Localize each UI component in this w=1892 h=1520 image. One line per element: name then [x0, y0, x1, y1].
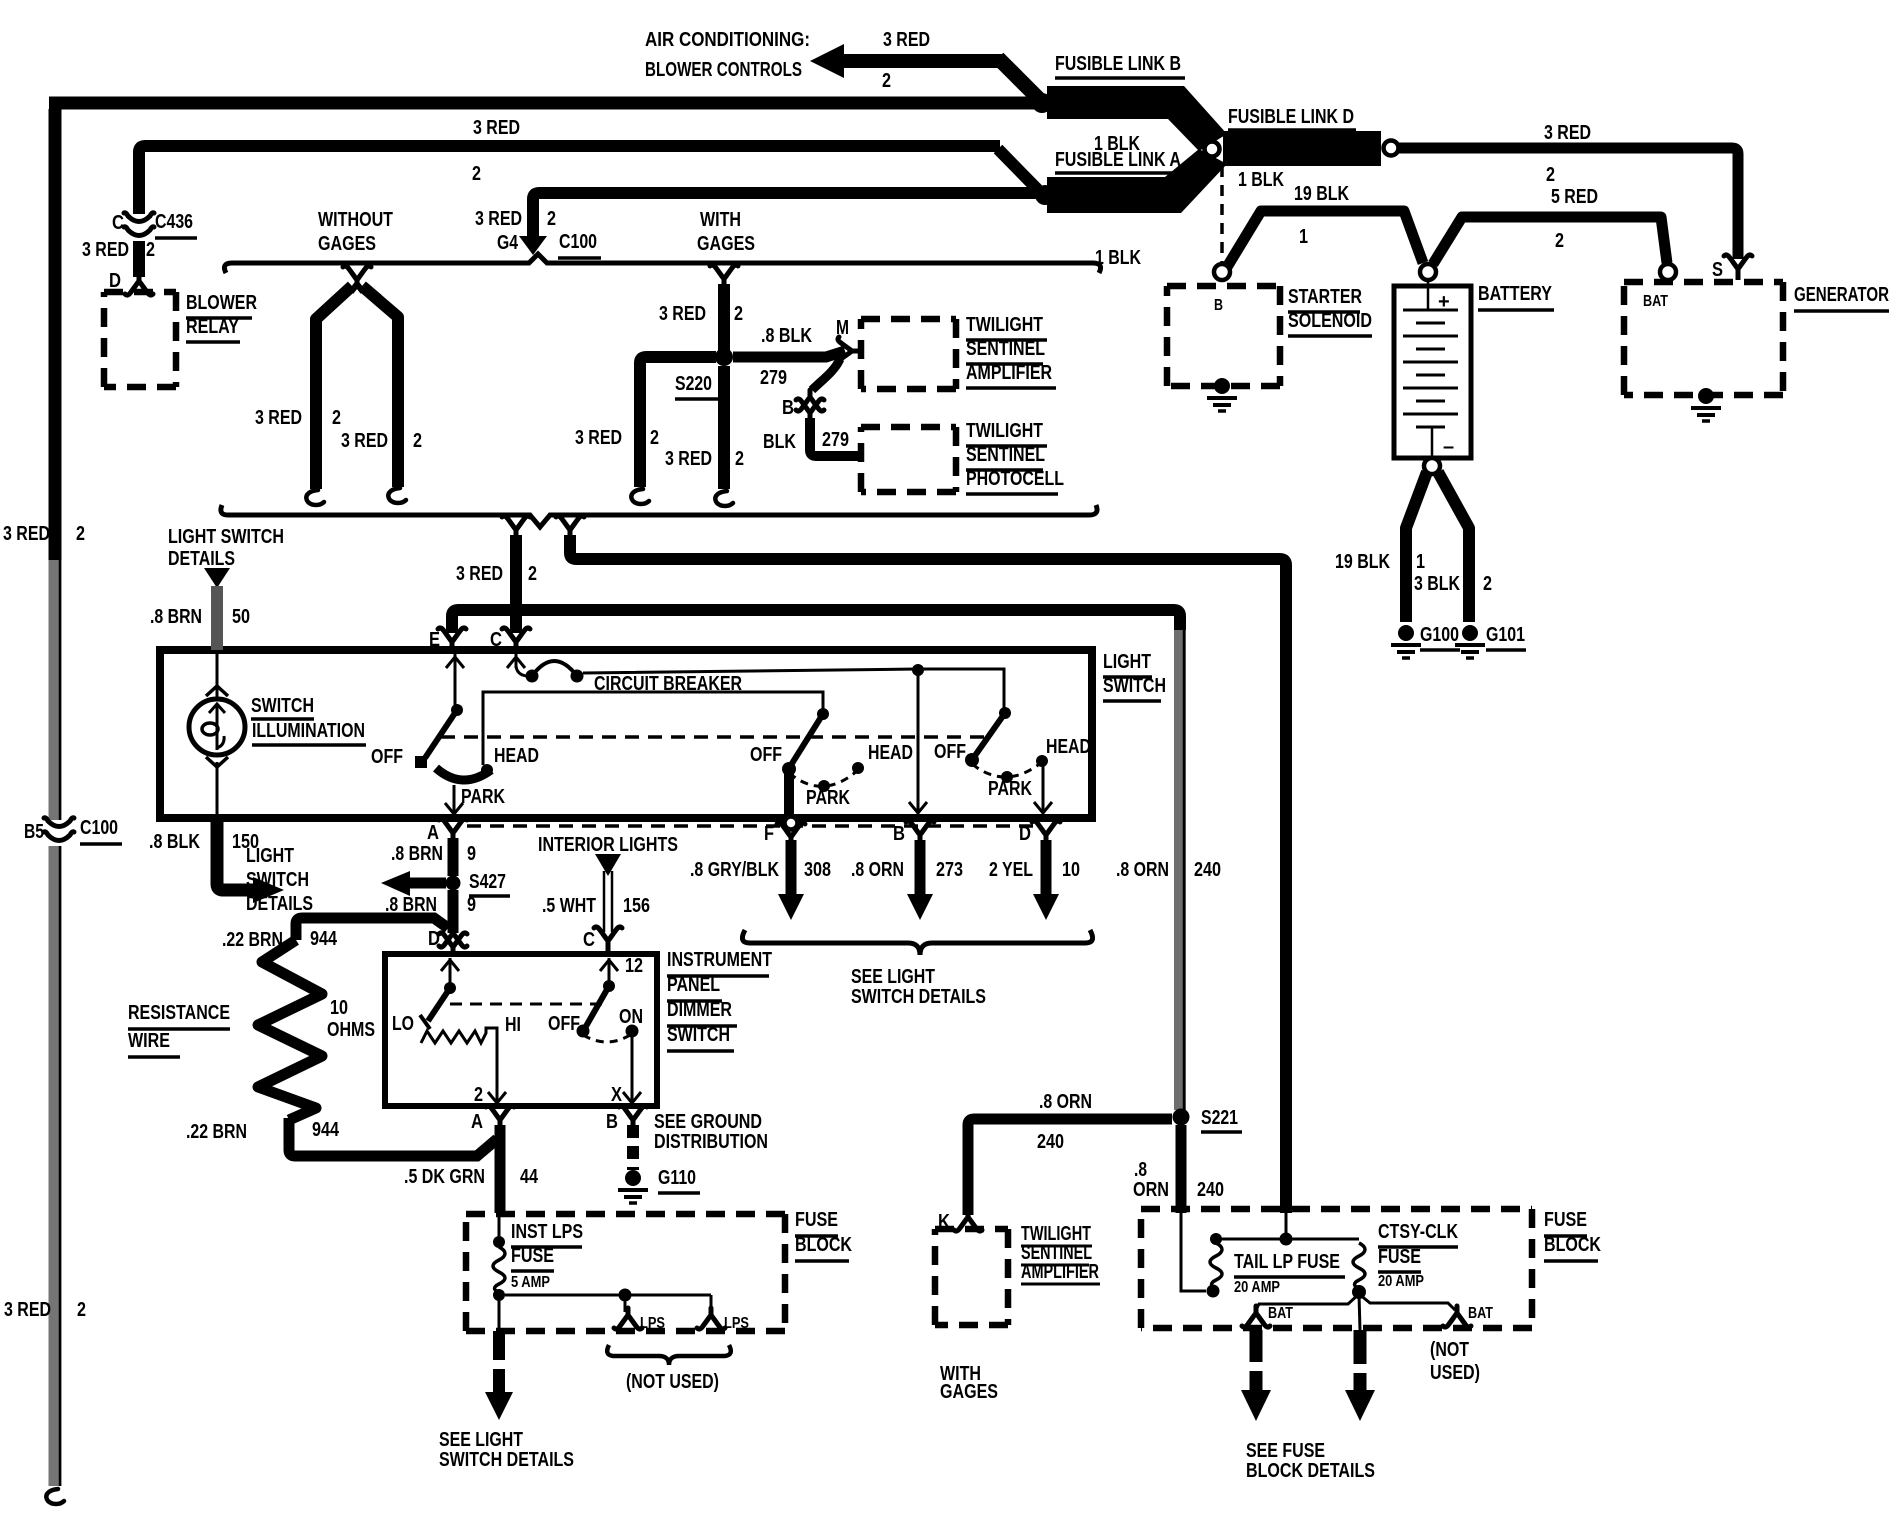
wire .8 BRN elbow to resistance wire	[296, 918, 448, 940]
wire .8 ORN 240 S221 to K amplifier	[968, 1119, 1172, 1215]
svg-text:RELAY: RELAY	[186, 316, 240, 338]
svg-text:LIGHT: LIGHT	[1103, 651, 1151, 673]
wire top bus between fuses	[1216, 1213, 1359, 1246]
label TAIL LP FUSE 20 AMP	[1234, 1251, 1345, 1296]
wire B BLK 279 photocell to amplifier	[812, 359, 840, 390]
svg-text:FUSIBLE LINK A: FUSIBLE LINK A	[1055, 149, 1181, 171]
svg-text:279: 279	[822, 429, 849, 451]
dimmer output 2 arrow	[474, 1084, 506, 1106]
label SEE LIGHT SWITCH DETAILS (bottom left)	[439, 1429, 574, 1471]
svg-text:DETAILS: DETAILS	[246, 893, 313, 915]
connector C436	[124, 213, 154, 236]
svg-text:2: 2	[1555, 230, 1564, 252]
svg-text:OFF: OFF	[548, 1013, 580, 1035]
svg-text:1: 1	[1299, 226, 1308, 248]
wire 2 YEL 10 from D	[1033, 840, 1059, 920]
switch 2 OFF contact	[782, 762, 796, 776]
svg-text:LPS: LPS	[640, 1315, 665, 1332]
ring terminal B starter solenoid	[1214, 264, 1230, 280]
svg-text:.8 BRN: .8 BRN	[150, 606, 202, 628]
svg-text:OFF: OFF	[934, 741, 966, 763]
svg-text:SWITCH DETAILS: SWITCH DETAILS	[851, 986, 986, 1008]
svg-text:HEAD: HEAD	[494, 745, 539, 767]
svg-text:240: 240	[1197, 1179, 1224, 1201]
wires from ctsy-clk fuse to BAT terminals	[1256, 1294, 1455, 1330]
connector pair at arch top	[343, 266, 371, 292]
svg-text:–: –	[1443, 436, 1454, 458]
svg-text:9: 9	[467, 843, 476, 865]
connector B5 C100 on left wire	[44, 818, 74, 846]
svg-text:G101: G101	[1486, 624, 1525, 646]
battery	[1394, 280, 1471, 459]
svg-text:3 RED: 3 RED	[665, 448, 712, 470]
wire .8 ORN 240 S221 to fuse block	[1176, 1125, 1187, 1213]
wire .8 GRY-BLK 308 from F	[778, 840, 804, 920]
wire feed to ctsy-clk fuse (long right vertical)	[570, 535, 1286, 1213]
svg-text:OHMS: OHMS	[327, 1019, 375, 1041]
label 3 RED 2	[82, 239, 155, 261]
label 3 RED 2	[341, 430, 422, 452]
label OFF ON	[548, 1006, 643, 1035]
svg-text:PHOTOCELL: PHOTOCELL	[966, 468, 1064, 490]
splice dot on 3 RED at fusible link A	[1035, 185, 1055, 205]
fuse block box (inst lps)	[466, 1214, 785, 1331]
svg-text:G110: G110	[658, 1167, 696, 1189]
svg-text:FUSE: FUSE	[511, 1245, 554, 1267]
svg-text:.8 ORN: .8 ORN	[1116, 859, 1169, 881]
dashed wire 1 BLK junction to starter solenoid	[1220, 166, 1224, 263]
svg-text:WITH: WITH	[700, 209, 741, 231]
wire 3 RED 2 down to S220	[718, 284, 730, 352]
label 19 BLK 1	[1294, 183, 1349, 248]
connector pair D dimmer input	[428, 926, 467, 954]
arrow feed from light switch details	[204, 568, 230, 588]
svg-text:.5 WHT: .5 WHT	[542, 895, 596, 917]
wire .8 BRN 50 to lamp	[211, 586, 223, 650]
svg-text:INST LPS: INST LPS	[511, 1221, 583, 1243]
light switch box	[160, 650, 1092, 818]
svg-text:LO: LO	[392, 1013, 414, 1035]
wire .8 ORN 273 from B	[907, 840, 933, 920]
svg-text:AIR CONDITIONING:: AIR CONDITIONING:	[645, 29, 810, 51]
label 3 RED 2 (left edge lower)	[4, 1299, 86, 1321]
wire 19 BLK 1 starter to battery	[1227, 211, 1423, 267]
wire 3 RED 2 from fusible link D to generator S	[1399, 148, 1738, 259]
svg-text:BLOCK: BLOCK	[1544, 1234, 1601, 1256]
wire 5 RED 2 battery to generator BAT	[1433, 217, 1667, 264]
label: AIR CONDITIONING BLOWER CONTROLS	[645, 29, 810, 81]
ground G100	[1391, 625, 1421, 658]
dimmer rheostat zigzag	[421, 1028, 497, 1102]
svg-text:BLOCK: BLOCK	[795, 1234, 852, 1256]
B output line from breaker bus	[909, 664, 927, 813]
svg-text:D: D	[1019, 823, 1031, 845]
svg-text:C100: C100	[559, 231, 597, 253]
brace not used	[607, 1345, 731, 1365]
svg-text:TWILIGHT: TWILIGHT	[966, 420, 1043, 442]
dimmer wiper arm LO	[420, 988, 450, 1029]
svg-text:FUSIBLE LINK B: FUSIBLE LINK B	[1055, 53, 1181, 75]
ring terminal generator BAT	[1660, 264, 1676, 280]
svg-text:(NOT: (NOT	[1430, 1339, 1469, 1361]
svg-text:2: 2	[1483, 573, 1492, 595]
starter solenoid box	[1167, 286, 1280, 386]
svg-text:FUSIBLE LINK D: FUSIBLE LINK D	[1228, 106, 1354, 128]
svg-text:INSTRUMENT: INSTRUMENT	[667, 949, 772, 971]
svg-text:3 RED: 3 RED	[475, 208, 522, 230]
svg-text:SWITCH: SWITCH	[1103, 675, 1166, 697]
tail lp fuse	[1207, 1233, 1223, 1298]
svg-text:OFF: OFF	[750, 744, 782, 766]
ground G101	[1455, 625, 1485, 658]
svg-text:WIRE: WIRE	[128, 1030, 170, 1052]
dashed line below light switch	[467, 824, 1038, 828]
svg-text:SENTINEL: SENTINEL	[966, 444, 1045, 466]
switch 3 dashed arc PARK HEAD	[972, 755, 1048, 783]
svg-text:279: 279	[760, 367, 787, 389]
svg-text:PANEL: PANEL	[667, 974, 720, 996]
label 10 OHMS	[327, 997, 375, 1041]
label .22 BRN 944	[222, 928, 338, 951]
upper brace (connector C100 distribution)	[224, 254, 1100, 273]
label G110	[658, 1167, 700, 1193]
ctsy-clk fuse	[1352, 1243, 1366, 1299]
label .8 BLK M 279	[760, 317, 849, 389]
svg-text:2: 2	[146, 239, 155, 261]
label LIGHT SWITCH DETAILS (note)	[246, 845, 313, 915]
label B5 C100	[24, 817, 122, 844]
label WITHOUT GAGES	[318, 209, 393, 255]
label .5 WHT 156	[542, 895, 650, 917]
splice dot on 3 RED at fusible link B	[1032, 93, 1052, 113]
wire: left vertical 3 RED 2 gray lower portion	[55, 560, 60, 1486]
svg-text:3 RED: 3 RED	[575, 427, 622, 449]
svg-text:2: 2	[474, 1084, 483, 1106]
switch 2 arm	[791, 714, 823, 765]
dimmer D input line	[441, 958, 459, 994]
label SEE FUSE BLOCK DETAILS	[1246, 1440, 1375, 1482]
svg-text:C: C	[112, 212, 124, 234]
svg-text:FUSE: FUSE	[795, 1209, 838, 1231]
svg-text:HEAD: HEAD	[1046, 736, 1091, 758]
label GENERATOR	[1794, 284, 1889, 311]
label RESISTANCE WIRE	[128, 1002, 230, 1057]
twilight sentinel amplifier box (with gages)	[935, 1229, 1008, 1325]
ground at starter solenoid	[1207, 378, 1237, 411]
svg-text:.8 ORN: .8 ORN	[1039, 1091, 1092, 1113]
label TWILIGHT SENTINEL AMPLIFIER	[1021, 1223, 1100, 1284]
svg-text:2: 2	[882, 70, 891, 92]
wire .8 BLK 279 S220 to amplifier M	[733, 351, 845, 357]
wire 3 RED 2 to air conditioning blower controls (left arrow)	[810, 44, 1040, 100]
svg-text:44: 44	[520, 1166, 539, 1188]
svg-text:WITHOUT: WITHOUT	[318, 209, 393, 231]
svg-text:HEAD: HEAD	[868, 742, 913, 764]
wire loop without gages (3 RED 2 arch)	[316, 286, 398, 489]
label PARK HEAD	[988, 736, 1091, 800]
label 3 RED 2	[575, 427, 659, 449]
label (NOT USED)	[1430, 1339, 1480, 1384]
twilight sentinel photocell box	[861, 427, 956, 492]
connector fork C dimmer	[583, 927, 622, 953]
svg-text:.5 DK GRN: .5 DK GRN	[404, 1166, 485, 1188]
battery cells	[1403, 310, 1458, 427]
connector fork B dimmer output	[606, 1106, 647, 1133]
label FUSIBLE LINK D	[1228, 106, 1356, 130]
svg-text:12: 12	[625, 955, 643, 977]
label LIGHT SWITCH DETAILS (feed note)	[168, 526, 284, 570]
svg-text:.22 BRN: .22 BRN	[186, 1121, 247, 1143]
arrow tail lp output	[1241, 1330, 1271, 1421]
connector forks LPS (not used)	[614, 1308, 665, 1332]
switch 3 pivot and arm	[965, 707, 1011, 767]
labels wire gauges below light switch	[690, 859, 1221, 881]
svg-text:BATTERY: BATTERY	[1478, 283, 1553, 305]
svg-text:PARK: PARK	[988, 778, 1032, 800]
svg-text:GAGES: GAGES	[318, 233, 376, 255]
dimmer on-off switch arm	[577, 986, 610, 1038]
svg-text:DISTRIBUTION: DISTRIBUTION	[654, 1131, 768, 1153]
svg-text:1: 1	[1416, 551, 1425, 573]
svg-text:S427: S427	[469, 871, 506, 893]
connector fork with gages feed	[710, 265, 738, 286]
svg-text:B: B	[606, 1111, 618, 1133]
label G101	[1486, 624, 1526, 650]
dimmer C input line 12	[600, 955, 643, 992]
svg-text:SEE LIGHT: SEE LIGHT	[851, 966, 935, 988]
connector fork B output	[893, 821, 934, 845]
label SWITCH ILLUMINATION	[251, 695, 366, 745]
label STARTER SOLENOID	[1288, 286, 1372, 336]
svg-text:G4: G4	[497, 232, 519, 254]
svg-text:G100: G100	[1420, 624, 1459, 646]
svg-text:A: A	[427, 822, 439, 844]
svg-text:2: 2	[413, 430, 422, 452]
junction ring fusible links	[1205, 142, 1220, 157]
svg-text:GAGES: GAGES	[940, 1381, 998, 1403]
svg-text:9: 9	[467, 894, 476, 916]
svg-text:SWITCH: SWITCH	[251, 695, 314, 717]
label SEE LIGHT SWITCH DETAILS	[851, 966, 986, 1008]
switch 1 PARK contact arc	[436, 768, 491, 780]
wire end hooks (without gages)	[306, 488, 406, 505]
wire 19 BLK 1 battery negative to G100	[1406, 472, 1427, 622]
label TWILIGHT SENTINEL PHOTOCELL	[966, 420, 1064, 494]
svg-text:FUSE: FUSE	[1544, 1209, 1587, 1231]
label 3 RED 2	[659, 303, 743, 325]
svg-text:944: 944	[310, 928, 338, 950]
blower relay box	[104, 292, 176, 387]
svg-text:USED): USED)	[1430, 1362, 1480, 1384]
svg-text:PARK: PARK	[461, 786, 505, 808]
ring and fork F output	[764, 817, 805, 846]
svg-text:3 RED: 3 RED	[456, 563, 503, 585]
connector fork at generator S	[1724, 255, 1752, 280]
svg-text:2: 2	[1546, 164, 1555, 186]
label BLOWER RELAY	[186, 292, 257, 342]
svg-text:DIMMER: DIMMER	[667, 999, 732, 1021]
instrument panel dimmer switch box	[385, 954, 657, 1106]
svg-text:5 RED: 5 RED	[1551, 186, 1598, 208]
ring at right of fusible link D	[1384, 141, 1399, 156]
svg-text:SWITCH DETAILS: SWITCH DETAILS	[439, 1449, 574, 1471]
label 5 RED 2	[1551, 186, 1598, 252]
svg-text:19 BLK: 19 BLK	[1294, 183, 1349, 205]
svg-text:2: 2	[650, 427, 659, 449]
label LIGHT SWITCH	[1103, 651, 1166, 701]
svg-text:B: B	[893, 823, 905, 845]
svg-text:2: 2	[528, 563, 537, 585]
svg-text:3 RED: 3 RED	[4, 1299, 51, 1321]
svg-text:OFF: OFF	[371, 746, 403, 768]
svg-text:273: 273	[936, 859, 963, 881]
svg-text:X: X	[611, 1084, 623, 1106]
svg-text:SWITCH: SWITCH	[667, 1024, 730, 1046]
label C C436	[112, 211, 197, 238]
label G100	[1420, 624, 1460, 650]
svg-text:944: 944	[312, 1119, 340, 1141]
ring terminal battery negative	[1424, 458, 1440, 474]
dimmer X output line	[611, 1035, 641, 1106]
switch 1 park output line	[445, 785, 463, 814]
svg-text:LIGHT SWITCH: LIGHT SWITCH	[168, 526, 284, 548]
svg-text:.8 BLK: .8 BLK	[149, 831, 200, 853]
svg-text:20 AMP: 20 AMP	[1378, 1273, 1424, 1290]
label LPS	[697, 1308, 749, 1332]
svg-text:2: 2	[547, 208, 556, 230]
fuse block box (tail lp / ctsy-clk)	[1141, 1209, 1532, 1328]
svg-text:1 BLK: 1 BLK	[1238, 169, 1284, 191]
svg-text:BLOWER CONTROLS: BLOWER CONTROLS	[645, 59, 802, 81]
svg-text:BAT: BAT	[1468, 1305, 1493, 1322]
label WITH GAGES (bottom)	[940, 1363, 998, 1403]
connector fork D output	[1019, 821, 1060, 845]
svg-text:TWILIGHT: TWILIGHT	[966, 314, 1043, 336]
svg-text:19 BLK: 19 BLK	[1335, 551, 1390, 573]
svg-text:LIGHT: LIGHT	[246, 845, 294, 867]
wire inst lps output arrow	[485, 1331, 513, 1420]
svg-text:BLOCK DETAILS: BLOCK DETAILS	[1246, 1460, 1375, 1482]
svg-text:FUSE: FUSE	[1378, 1246, 1421, 1268]
label FUSIBLE LINK A	[1055, 149, 1185, 173]
switch 1 HEAD contact	[481, 764, 493, 776]
label .8 ORN 240	[1037, 1091, 1092, 1153]
gang dashed line	[441, 735, 985, 739]
svg-text:3 RED: 3 RED	[255, 407, 302, 429]
svg-text:BAT: BAT	[1643, 293, 1668, 310]
svg-text:SENTINEL: SENTINEL	[966, 338, 1045, 360]
svg-text:2: 2	[735, 448, 744, 470]
connector fork M at amplifier	[838, 337, 859, 365]
wire 3 RED 2 down branch from S220	[718, 366, 730, 489]
switch 2 pivot	[817, 708, 829, 720]
svg-text:S220: S220	[675, 373, 712, 395]
wire circuit breaker to switch 3 and B	[583, 669, 1004, 710]
svg-text:308: 308	[804, 859, 831, 881]
dimmer dashed arc off-on	[583, 1025, 639, 1043]
switch 2 dashed arc PARK HEAD	[789, 762, 864, 792]
dashed wire B to G110	[627, 1125, 639, 1170]
wire 3 BLK 2 battery negative to G101	[1438, 472, 1469, 622]
label 3 RED / 2 (second feed)	[472, 117, 520, 185]
svg-text:A: A	[471, 1111, 483, 1133]
label .8 BRN 50	[150, 606, 250, 628]
switch 3 output to D	[1034, 765, 1052, 813]
wire inside fuse block from tail lp feed	[1181, 1213, 1206, 1291]
svg-text:50: 50	[232, 606, 250, 628]
svg-text:B: B	[1214, 297, 1223, 314]
wire 3 RED 2 left branch from S220	[640, 357, 716, 487]
svg-text:PARK: PARK	[806, 787, 850, 809]
wire .8 BLK 150 from lamp	[217, 818, 284, 903]
svg-text:3 BLK: 3 BLK	[1414, 573, 1460, 595]
svg-text:LPS: LPS	[724, 1315, 749, 1332]
svg-text:DETAILS: DETAILS	[168, 548, 235, 570]
svg-text:3 RED: 3 RED	[341, 430, 388, 452]
switch 1 (headlight) E input	[446, 654, 464, 716]
svg-text:.22 BRN: .22 BRN	[222, 929, 283, 951]
label WITH GAGES	[697, 209, 755, 255]
label BATTERY	[1478, 283, 1554, 310]
splice S427	[446, 876, 461, 891]
svg-text:20 AMP: 20 AMP	[1234, 1279, 1280, 1296]
svg-text:2: 2	[332, 407, 341, 429]
label FUSE BLOCK	[1544, 1209, 1601, 1261]
splice S220	[715, 348, 733, 366]
connector fork C feed	[502, 516, 530, 537]
svg-text:GAGES: GAGES	[697, 233, 755, 255]
label 3 RED 2	[456, 563, 537, 585]
svg-text:AMPLIFIER: AMPLIFIER	[966, 362, 1052, 384]
fusible link A	[1047, 149, 1227, 213]
wire .8 BRN 9 from A to S427	[448, 838, 459, 876]
svg-text:AMPLIFIER: AMPLIFIER	[1021, 1261, 1099, 1283]
label 3 RED / 2 / G4 / C100	[475, 208, 601, 258]
connector fork E	[438, 628, 466, 649]
connector fork C	[502, 628, 530, 649]
connector pair B (photocell lead)	[796, 390, 824, 420]
svg-text:3 RED: 3 RED	[1544, 122, 1591, 144]
wire photocell output	[810, 418, 861, 456]
svg-text:BLOWER: BLOWER	[186, 292, 257, 314]
svg-text:3 RED: 3 RED	[883, 29, 930, 51]
svg-text:2: 2	[472, 163, 481, 185]
arrow ctsy-clk output	[1345, 1330, 1375, 1421]
svg-text:C436: C436	[155, 211, 193, 233]
connector fork A output	[427, 819, 467, 844]
label .8 ORN 240	[1133, 1159, 1224, 1201]
wire .5 DK GRN 44 resistor to fuse block	[289, 1118, 497, 1156]
ground G110	[618, 1170, 648, 1203]
wire to LPS terminals	[505, 1289, 711, 1313]
svg-text:156: 156	[623, 895, 650, 917]
svg-text:2 YEL: 2 YEL	[989, 859, 1033, 881]
label FUSIBLE LINK B	[1055, 53, 1185, 78]
svg-text:ILLUMINATION: ILLUMINATION	[252, 720, 365, 742]
connector fork ctsy feed	[556, 516, 584, 537]
label LO HI	[392, 1013, 521, 1036]
arrow interior lights feed	[595, 854, 621, 876]
wire tail lp fuse to light switch E (long)	[452, 610, 1184, 1110]
wire 3 RED 2 C436 to blower relay	[133, 241, 145, 277]
wire 3 RED 2 to light switch C	[510, 535, 522, 633]
svg-text:240: 240	[1037, 1131, 1064, 1153]
connector fork A dimmer output	[471, 1106, 514, 1133]
svg-text:.8: .8	[1134, 1159, 1147, 1181]
wire .8 BRN 9 below S427	[448, 890, 459, 933]
connector fork BAT 2 (not used)	[1443, 1305, 1493, 1327]
generator box	[1624, 282, 1783, 395]
